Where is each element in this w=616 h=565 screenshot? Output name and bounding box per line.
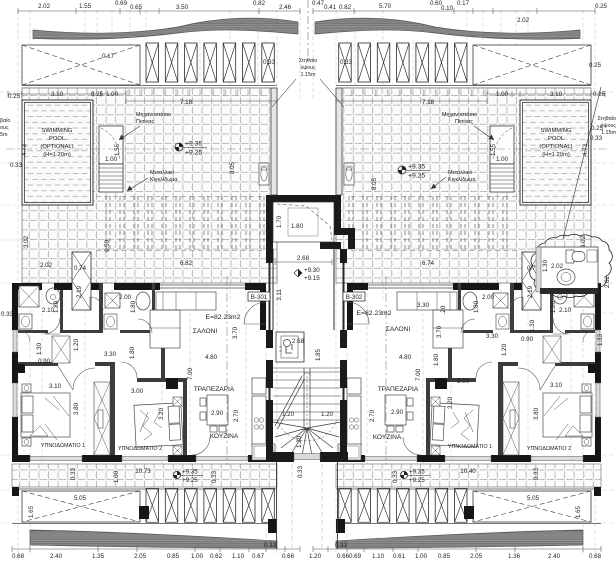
duct shaft 0.74 — [72, 252, 91, 310]
svg-text:Μεταλλικό: Μεταλλικό — [150, 169, 174, 176]
svg-text:3.10: 3.10 — [550, 91, 563, 98]
svg-text:0.33: 0.33 — [392, 470, 399, 483]
svg-text:7.00: 7.00 — [415, 368, 422, 381]
svg-text:ύψους: ύψους — [601, 123, 616, 129]
bottom band boundary lines — [12, 489, 277, 524]
level marker balcony right — [400, 469, 430, 485]
pool machine room and stair — [99, 126, 123, 192]
svg-text:ΚΟΥΖΙΝΑ: ΚΟΥΖΙΝΑ — [373, 434, 402, 441]
svg-text:ΤΡΑΠΕΖΑΡΙΑ: ΤΡΑΠΕΖΑΡΙΑ — [378, 386, 419, 393]
svg-text:1.80: 1.80 — [129, 346, 136, 359]
core landing level marker — [294, 267, 320, 282]
door arcs — [18, 297, 210, 455]
lift door — [303, 336, 305, 356]
revision cloud — [530, 87, 613, 298]
svg-text:ΣΑΛΟΝΙ: ΣΑΛΟΝΙ — [193, 328, 218, 335]
landing width dim line — [275, 259, 332, 265]
top wavy shaded parapet band — [33, 18, 298, 39]
greek annotation railing right — [431, 169, 476, 189]
greek annotation pool plant right — [442, 111, 494, 140]
svg-text:3.30: 3.30 — [417, 302, 430, 309]
greek annotation railing — [127, 169, 178, 191]
svg-text:1.85: 1.85 — [315, 348, 322, 361]
right wc room — [536, 247, 598, 294]
svg-text:0.17: 0.17 — [102, 53, 115, 60]
core west wall lower — [266, 249, 347, 462]
svg-text:4.80: 4.80 — [205, 354, 218, 361]
svg-text:10.40: 10.40 — [460, 468, 476, 475]
interior partition walls — [12, 283, 187, 455]
B-302 tag — [343, 292, 365, 301]
svg-text:2.68: 2.68 — [292, 338, 305, 345]
svg-text:0.90: 0.90 — [521, 336, 534, 343]
balcony dims left — [70, 467, 218, 483]
svg-text:Μεταλλικό: Μεταλλικό — [448, 169, 472, 176]
svg-text:2.70: 2.70 — [233, 409, 240, 422]
B-301 tag — [248, 292, 270, 301]
svg-text:ΣΑΛΟΝΙ: ΣΑΛΟΝΙ — [386, 326, 411, 333]
terrace east parapet wall — [271, 88, 277, 195]
apartment outer west wall — [12, 283, 18, 462]
svg-text:2.10: 2.10 — [559, 307, 572, 314]
swimming pool label right — [539, 128, 572, 158]
bedroom2 nightstands — [173, 397, 182, 455]
winder steps — [273, 420, 341, 456]
svg-text:(OPTIONAL): (OPTIONAL) — [40, 144, 73, 150]
svg-text:+9.35: +9.35 — [408, 164, 425, 171]
elevator — [276, 332, 304, 362]
svg-text:3.80: 3.80 — [73, 402, 80, 415]
svg-text:3.10: 3.10 — [550, 382, 563, 389]
svg-text:Μηχανοστάσιο: Μηχανοστάσιο — [442, 111, 477, 118]
svg-text:+9.35: +9.35 — [185, 141, 202, 148]
svg-text:1.80: 1.80 — [550, 300, 557, 313]
lift machine room walls — [266, 195, 355, 249]
right edge rotated dims — [542, 259, 611, 346]
svg-text:2.02: 2.02 — [40, 262, 53, 269]
svg-text:1.30: 1.30 — [542, 259, 549, 272]
svg-text:1.00: 1.00 — [113, 470, 120, 483]
svg-text:3.00: 3.00 — [131, 388, 144, 395]
svg-text:1.15m: 1.15m — [301, 72, 316, 78]
svg-text:0.25: 0.25 — [589, 62, 602, 69]
corridor closet — [52, 336, 70, 363]
svg-text:2.00: 2.00 — [482, 294, 495, 301]
right wc room fixtures — [557, 250, 597, 285]
svg-text:0.67: 0.67 — [252, 553, 265, 560]
bottom wavy shaded band — [30, 530, 277, 548]
svg-text:2.90: 2.90 — [391, 409, 404, 416]
svg-text:ΤΡΑΠΕΖΑΡΙΑ: ΤΡΑΠΕΖΑΡΙΑ — [194, 386, 235, 393]
centre axis line — [307, 0, 309, 62]
svg-text:0.82: 0.82 — [339, 4, 352, 11]
svg-text:SWIMMING: SWIMMING — [42, 128, 73, 134]
svg-text:4.73: 4.73 — [21, 143, 28, 156]
svg-text:0.68: 0.68 — [12, 553, 25, 560]
svg-text:1.30: 1.30 — [529, 319, 536, 332]
apartment axis dash-dot — [227, 276, 386, 465]
svg-text:8.05: 8.05 — [371, 177, 378, 190]
svg-text:1.36: 1.36 — [508, 553, 521, 560]
top dimension line with ticks — [12, 8, 300, 552]
svg-text:0.82: 0.82 — [253, 0, 266, 7]
svg-text:βαίο: βαίο — [0, 118, 10, 124]
wardrobe bedroom1 — [94, 382, 110, 455]
bottom pergola X panel — [22, 491, 140, 522]
core dims and levels — [276, 215, 334, 478]
svg-text:0.41: 0.41 — [324, 4, 337, 11]
svg-text:0.33: 0.33 — [10, 162, 23, 169]
svg-text:3.50: 3.50 — [176, 4, 189, 11]
svg-text:1.10: 1.10 — [232, 553, 245, 560]
CORE — [244, 195, 369, 549]
balcony dims right — [392, 467, 540, 483]
svg-text:+9.25: +9.25 — [409, 477, 425, 484]
svg-text:Στηθαίο: Στηθαίο — [597, 116, 616, 122]
svg-text:0.33: 0.33 — [264, 542, 277, 549]
svg-text:3.00: 3.00 — [457, 378, 470, 385]
svg-text:0.74: 0.74 — [74, 265, 87, 272]
bottom dimension labels right — [335, 542, 602, 560]
top dimension labels left — [38, 0, 292, 11]
svg-text:Μηχανοστάσιο: Μηχανοστάσιο — [136, 111, 171, 118]
svg-text:1.65: 1.65 — [575, 505, 582, 518]
svg-text:3.02: 3.02 — [580, 235, 587, 248]
level marker terrace left — [175, 141, 207, 157]
svg-text:1.80: 1.80 — [473, 300, 480, 313]
svg-text:0.47: 0.47 — [312, 0, 325, 7]
svg-text:E=82.23m2: E=82.23m2 — [206, 314, 241, 321]
svg-text:2.00: 2.00 — [119, 294, 132, 301]
svg-text:1.20: 1.20 — [296, 435, 303, 448]
svg-text:0.25: 0.25 — [91, 91, 104, 98]
svg-text:2.02: 2.02 — [517, 17, 530, 24]
svg-text:7.18: 7.18 — [180, 99, 193, 106]
svg-text:3.10: 3.10 — [49, 383, 62, 390]
svg-text:ους: ους — [0, 125, 9, 131]
svg-text:1.00: 1.00 — [191, 553, 204, 560]
svg-text:2.19: 2.19 — [76, 285, 83, 298]
svg-text:3.70: 3.70 — [232, 326, 239, 339]
rotated dims left — [21, 143, 236, 298]
svg-text:0.33: 0.33 — [533, 467, 540, 480]
bottom band dims left — [28, 495, 87, 518]
svg-text:POOL: POOL — [548, 136, 565, 142]
svg-text:3.02: 3.02 — [23, 235, 30, 248]
svg-text:1.80: 1.80 — [291, 223, 304, 230]
svg-text:3.20: 3.20 — [158, 407, 165, 420]
svg-text:1.30: 1.30 — [36, 342, 43, 355]
terrace slab edge double line — [22, 86, 277, 89]
svg-text:0.61: 0.61 — [393, 553, 406, 560]
bottom band dims right — [527, 495, 582, 518]
terrace railing post ticks — [128, 90, 262, 96]
svg-text:0.33: 0.33 — [263, 59, 276, 66]
pergola dashed beam lines over terrace — [96, 196, 264, 251]
svg-text:B-301: B-301 — [251, 294, 268, 301]
svg-text:2.19: 2.19 — [527, 285, 534, 298]
svg-text:(H=1.20m): (H=1.20m) — [542, 152, 570, 158]
svg-text:0.25: 0.25 — [595, 3, 608, 10]
dining table — [200, 395, 228, 432]
svg-text:1.70: 1.70 — [276, 215, 283, 228]
svg-text:6.74: 6.74 — [422, 260, 435, 267]
svg-text:2.40: 2.40 — [548, 553, 561, 560]
stairs straight flights — [273, 368, 341, 430]
svg-text:1.55: 1.55 — [490, 143, 497, 156]
machine room interior — [273, 202, 334, 242]
terrace tiled deck — [22, 88, 277, 283]
svg-text:3.10: 3.10 — [51, 91, 64, 98]
west wall window sills — [13, 330, 17, 417]
svg-text:1.33: 1.33 — [597, 333, 604, 346]
svg-text:ύψους: ύψους — [300, 65, 316, 71]
GEOHALF — [0, 8, 300, 555]
big X panel top-left — [22, 45, 140, 85]
svg-text:5m: 5m — [0, 132, 8, 138]
svg-text:Στηθαίο: Στηθαίο — [299, 58, 318, 64]
apartment bottom wall — [12, 455, 266, 462]
svg-text:1.20: 1.20 — [321, 411, 334, 418]
greek annotation pool plant — [119, 111, 171, 140]
level marker terrace right — [398, 164, 430, 180]
svg-text:2.05: 2.05 — [470, 553, 483, 560]
svg-text:0.33: 0.33 — [1, 311, 14, 318]
svg-text:+9.25: +9.25 — [185, 150, 202, 157]
svg-text:0.66: 0.66 — [282, 553, 295, 560]
svg-text:1.00: 1.00 — [496, 156, 509, 163]
partial edge note right — [597, 116, 616, 136]
svg-text:1.15m: 1.15m — [601, 130, 616, 136]
apartment room labels left — [41, 314, 241, 452]
svg-text:3.30: 3.30 — [104, 351, 117, 358]
bottom wall windows — [30, 457, 248, 461]
faint extension grid lines — [0, 10, 300, 555]
svg-text:0.62: 0.62 — [210, 553, 223, 560]
level marker balcony left — [173, 469, 203, 485]
svg-text:E=82.23m2: E=82.23m2 — [357, 310, 392, 317]
bottom corner columns — [12, 487, 277, 533]
center parapet note — [272, 58, 344, 107]
TEXTL — [1, 0, 322, 560]
svg-text:0.85: 0.85 — [438, 553, 451, 560]
landing walls — [273, 249, 334, 330]
svg-text:+9.25: +9.25 — [182, 477, 198, 484]
svg-text:0.66: 0.66 — [337, 553, 350, 560]
svg-text:1.80: 1.80 — [130, 300, 137, 313]
svg-text:1.80: 1.80 — [433, 353, 440, 366]
entrance path below core — [277, 462, 338, 549]
svg-text:3.80: 3.80 — [533, 407, 540, 420]
svg-text:1.00: 1.00 — [415, 553, 428, 560]
sofa — [150, 292, 216, 348]
sliding balcony door top — [160, 285, 245, 288]
svg-text:+9.35: +9.35 — [182, 469, 198, 476]
svg-text:1.20: 1.20 — [282, 411, 295, 418]
svg-text:1.20: 1.20 — [73, 338, 80, 351]
upper terrace dims left — [8, 53, 276, 272]
svg-text:+9.15: +9.15 — [304, 275, 320, 282]
svg-text:Κιγκλίδωμα: Κιγκλίδωμα — [448, 177, 476, 183]
svg-text:0.33: 0.33 — [340, 59, 353, 66]
kitchen tall units — [252, 378, 275, 460]
svg-text:1.55: 1.55 — [114, 143, 121, 156]
svg-text:0.69: 0.69 — [115, 0, 128, 7]
svg-text:2.46: 2.46 — [279, 4, 292, 11]
svg-text:0.90: 0.90 — [38, 358, 51, 365]
svg-text:0.50: 0.50 — [104, 239, 111, 252]
bed 2 — [134, 403, 183, 447]
svg-text:4.80: 4.80 — [399, 354, 412, 361]
svg-text:6.82: 6.82 — [180, 260, 193, 267]
balcony strip tiled — [12, 464, 277, 487]
partial edge note left — [0, 118, 10, 138]
svg-text:2.05: 2.05 — [134, 553, 147, 560]
pool dim lines — [8, 91, 277, 104]
bed 1 — [21, 384, 70, 446]
svg-text:3.30: 3.30 — [486, 333, 499, 340]
bathroom 1 fixtures — [19, 286, 60, 329]
svg-text:ΥΠΝΟΔΩΜΑΤΙΟ 2: ΥΠΝΟΔΩΜΑΤΙΟ 2 — [118, 446, 162, 452]
svg-text:0.33: 0.33 — [590, 135, 603, 142]
svg-text:0.33: 0.33 — [211, 470, 218, 483]
svg-text:+9.35: +9.35 — [409, 469, 425, 476]
svg-text:(H=1.20m): (H=1.20m) — [43, 152, 71, 158]
svg-text:ΥΠΝΟΔΩΜΑΤΙΟ 1: ΥΠΝΟΔΩΜΑΤΙΟ 1 — [448, 444, 492, 450]
pool axis dash-dot line — [6, 148, 263, 150]
svg-text:7.18: 7.18 — [422, 99, 435, 106]
svg-text:1.00: 1.00 — [105, 156, 118, 163]
svg-text:(OPTIONAL): (OPTIONAL) — [539, 144, 572, 150]
left edge small dims — [1, 311, 14, 318]
svg-text:1.80: 1.80 — [53, 300, 60, 313]
svg-text:Πισίνας: Πισίνας — [455, 119, 473, 125]
svg-text:2.90: 2.90 — [211, 410, 224, 417]
svg-text:2.02: 2.02 — [38, 3, 51, 10]
svg-text:0.25: 0.25 — [8, 93, 21, 100]
balcony railing post ticks — [16, 466, 271, 472]
svg-text:1.00: 1.00 — [106, 91, 119, 98]
svg-text:0.65: 0.65 — [130, 4, 143, 11]
svg-text:0.10: 0.10 — [441, 5, 454, 12]
svg-text:ΥΠΝΟΔΩΜΑΤΙΟ 2: ΥΠΝΟΔΩΜΑΤΙΟ 2 — [527, 446, 571, 452]
core bottom door sill — [294, 454, 320, 460]
svg-text:0.33: 0.33 — [70, 467, 77, 480]
apartment top wall — [12, 283, 266, 330]
hatch door dashed — [277, 204, 332, 240]
svg-text:5.05: 5.05 — [74, 495, 87, 502]
svg-text:1.10: 1.10 — [372, 553, 385, 560]
svg-text:+9.30: +9.30 — [304, 267, 320, 274]
svg-text:POOL: POOL — [49, 136, 66, 142]
core thin wall sections — [270, 263, 344, 400]
svg-text:1.65: 1.65 — [28, 505, 35, 518]
swimming pool label — [40, 128, 73, 158]
svg-text:+9.25: +9.25 — [408, 173, 425, 180]
rotated dims right — [371, 143, 589, 298]
svg-text:0.33: 0.33 — [335, 542, 348, 549]
svg-text:1.55: 1.55 — [79, 3, 92, 10]
bottom dimension labels left — [12, 542, 322, 560]
svg-text:2.70: 2.70 — [369, 409, 376, 422]
svg-text:2.40: 2.40 — [50, 553, 63, 560]
svg-text:10.73: 10.73 — [135, 468, 151, 475]
mirrored right half geometry — [313, 8, 613, 555]
svg-text:ΚΟΥΖΙΝΑ: ΚΟΥΖΙΝΑ — [210, 433, 239, 440]
upper terrace dims right — [340, 59, 606, 272]
svg-text:1.20: 1.20 — [309, 553, 322, 560]
svg-text:5.70: 5.70 — [379, 3, 392, 10]
swimming pool — [22, 100, 93, 205]
svg-text:0.33: 0.33 — [297, 465, 304, 478]
interior dims left — [36, 294, 240, 422]
apartment room labels right — [357, 310, 572, 452]
bathroom 2 fixtures — [104, 292, 150, 329]
apartment entrance door arcs — [244, 302, 369, 324]
bottom row of X columns — [146, 488, 274, 522]
svg-text:7.00: 7.00 — [187, 367, 194, 380]
svg-text:5.05: 5.05 — [527, 495, 540, 502]
svg-text:0.69: 0.69 — [349, 553, 362, 560]
core bottom wall — [266, 452, 348, 462]
row of X pergola columns top — [146, 43, 274, 82]
svg-text:3.70: 3.70 — [436, 325, 443, 338]
svg-text:ΥΠΝΟΔΩΜΑΤΙΟ 1: ΥΠΝΟΔΩΜΑΤΙΟ 1 — [41, 443, 85, 449]
svg-text:Κιγκλίδωμα: Κιγκλίδωμα — [150, 177, 178, 183]
svg-text:3.11: 3.11 — [276, 289, 283, 301]
svg-text:Πισίνας: Πισίνας — [136, 119, 154, 125]
svg-text:.20: .20 — [440, 305, 447, 314]
svg-text:B-302: B-302 — [346, 294, 363, 301]
svg-text:0.85: 0.85 — [167, 553, 180, 560]
top dimension labels right — [312, 0, 608, 24]
svg-text:2.02: 2.02 — [604, 275, 611, 288]
svg-text:1.00: 1.00 — [496, 91, 509, 98]
svg-text:SWIMMING: SWIMMING — [541, 128, 572, 134]
basin on parapet near core — [259, 163, 269, 185]
svg-text:8.05: 8.05 — [229, 161, 236, 174]
svg-text:2.68: 2.68 — [297, 255, 310, 262]
svg-text:2.02: 2.02 — [551, 263, 564, 270]
interior dims right — [369, 294, 572, 422]
svg-text:0.17: 0.17 — [457, 0, 470, 7]
svg-text:1.35: 1.35 — [92, 553, 105, 560]
svg-text:3.20: 3.20 — [447, 396, 454, 409]
svg-text:1.20: 1.20 — [501, 343, 508, 356]
svg-text:0.68: 0.68 — [589, 553, 602, 560]
